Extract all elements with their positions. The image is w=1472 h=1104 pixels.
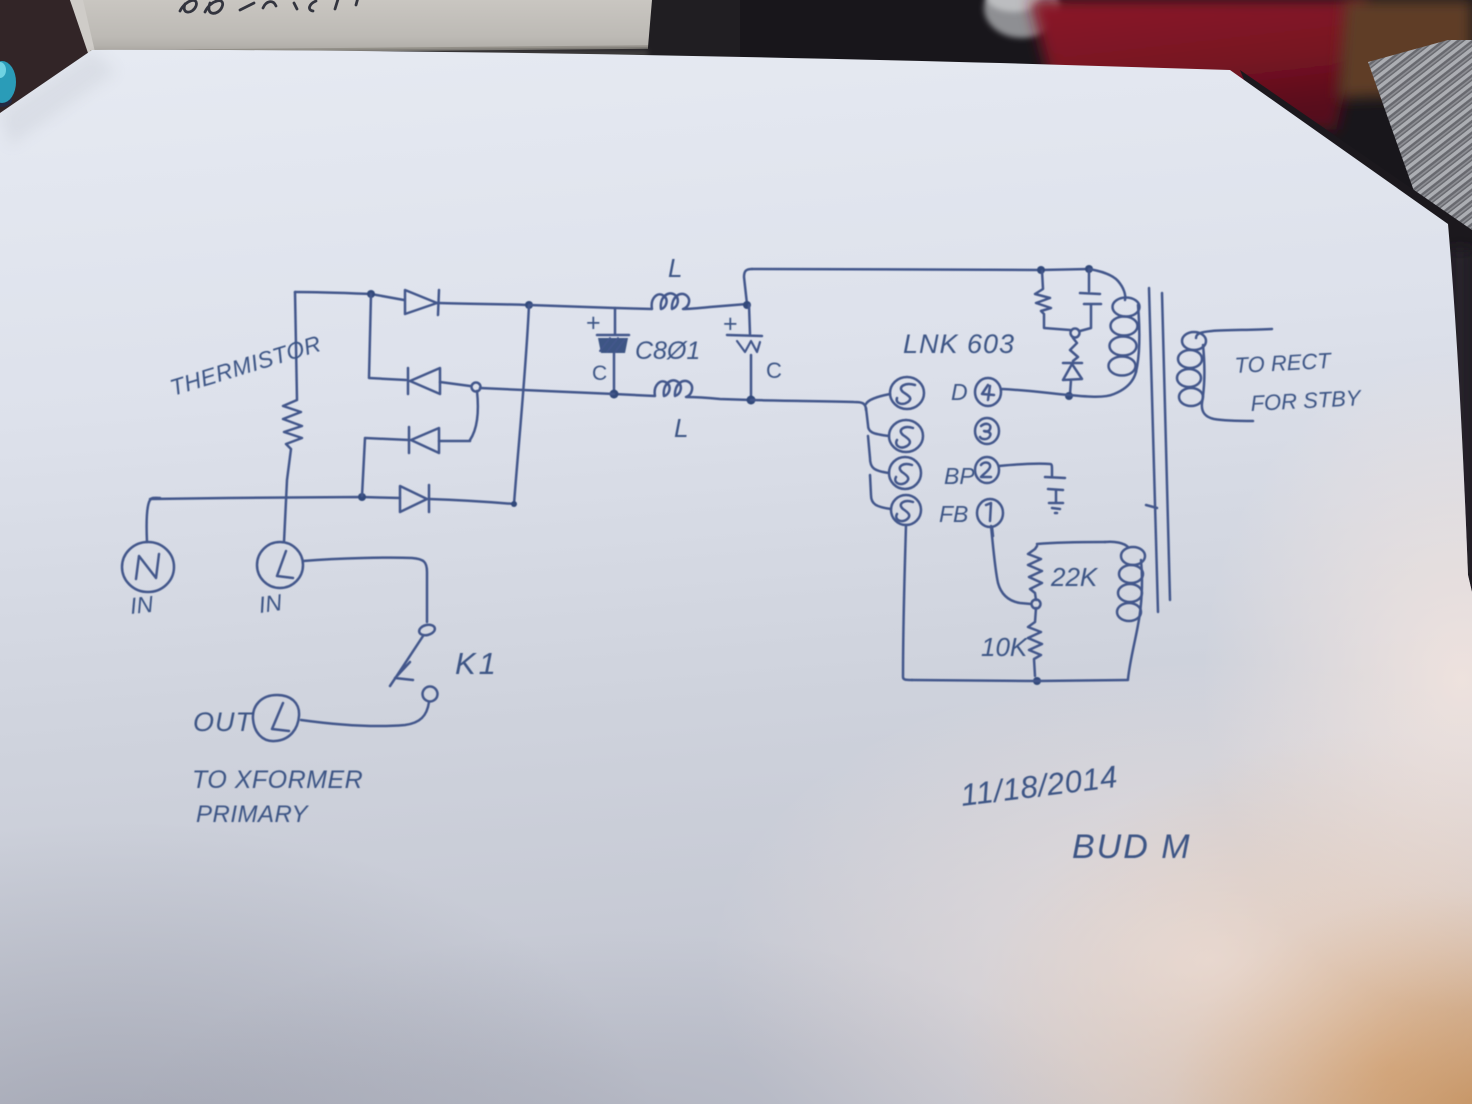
svg-text:BP: BP — [944, 463, 975, 489]
node D dot bridge bottom-right corner — [511, 501, 517, 507]
letter L inside L IN — [277, 551, 293, 578]
node K open circle snubber junction — [1071, 329, 1080, 338]
node G dot C801 left bottom — [610, 390, 619, 399]
core tick mark — [1146, 505, 1157, 508]
resistor 22K — [1028, 546, 1042, 600]
wire long top rail to snubber — [752, 269, 1089, 270]
transformer aux winding — [1105, 542, 1128, 547]
wire EMI lower rail from hook to C801 — [480, 388, 614, 394]
svg-text:C: C — [766, 358, 782, 383]
wire L IN to K1 upper contact — [303, 558, 427, 622]
svg-text:C: C — [592, 362, 607, 385]
letter S pin2 — [896, 427, 913, 447]
svg-text:IN: IN — [257, 589, 284, 618]
dark strip along right paper edge — [1240, 70, 1472, 600]
IC U1 pin BP2 circle — [975, 457, 999, 483]
IC U1 pin FB1 circle — [977, 499, 1003, 527]
IC U1 pin S2 circle — [889, 420, 923, 452]
node I dot snubber R top — [1037, 266, 1045, 274]
svg-text:D: D — [951, 379, 968, 405]
INK LAYER — [122, 265, 1272, 741]
terminal L IN circle — [257, 542, 303, 588]
relay contact K1 upper — [418, 623, 436, 637]
diode D2 — [408, 368, 440, 394]
terminal OUT L circle — [253, 695, 299, 741]
letter S pin3 — [895, 464, 912, 484]
node C junction dot bridge bottom-left — [358, 493, 366, 501]
TEXT LAYER — [129, 253, 1363, 866]
IC U1 pin D4 circle — [975, 378, 1001, 406]
node H dot C801 right bottom — [747, 396, 756, 405]
wire drain pin to clamp node and primary bottom — [1001, 372, 1136, 397]
IC U1 pin S1 circle — [890, 377, 924, 409]
capacitor snubber C — [1080, 270, 1101, 331]
wire D3 leads — [362, 438, 470, 496]
svg-text:TO XFORMER: TO XFORMER — [192, 766, 363, 794]
node L dot clamp anode junction — [1065, 392, 1073, 400]
svg-text:10K: 10K — [981, 632, 1029, 662]
node J dot snubber C top — [1085, 265, 1093, 273]
svg-text:K1: K1 — [455, 646, 499, 681]
wire D4 pin to clamp — [1000, 389, 1003, 392]
wire N riser to bottom rail — [147, 498, 160, 542]
thermistor RT1 — [283, 292, 302, 542]
wire aux winding top to 22K — [1037, 542, 1105, 544]
digit 3 in pin — [980, 424, 990, 439]
wire bridge bottom rail — [150, 497, 400, 499]
wire BP2 to bypass cap — [999, 464, 1052, 476]
svg-text:TO RECT: TO RECT — [1234, 348, 1333, 378]
wire D2 anode branch from top node — [369, 294, 406, 380]
wire D2 to hook node — [440, 382, 470, 386]
diode zener clamp — [1063, 338, 1082, 394]
inductor L top winding — [616, 293, 747, 309]
scrap paper top-left with cursive scribble — [70, 0, 652, 52]
wire D1 cathode to top-right node — [439, 303, 529, 305]
wire D4 to bridge bottom-right corner — [429, 499, 514, 504]
wire bottom return rail — [912, 680, 1128, 681]
digit 2 in pin — [981, 463, 991, 477]
teal object left edge — [0, 93, 12, 107]
diode D3 — [409, 427, 439, 453]
wire top node up to long rail — [744, 269, 752, 304]
wire K1 lower contact to OUT terminal — [301, 702, 429, 726]
svg-text:22K: 22K — [1050, 562, 1099, 592]
svg-text:FB: FB — [939, 501, 968, 527]
node F dot at choke output — [743, 301, 751, 309]
wire FB1 to divider junction — [991, 526, 1031, 604]
inductor L bottom winding — [614, 380, 751, 400]
digit 4 in pin — [982, 385, 994, 400]
digit 1 in pin — [986, 503, 991, 521]
IC U1 pin 3 circle — [975, 418, 999, 444]
resistor 10K — [1028, 608, 1042, 676]
svg-text:+: + — [723, 310, 738, 338]
grey round object top middle — [984, 0, 1060, 38]
capacitor BP bypass — [1045, 477, 1065, 502]
node A junction dot bridge top-left — [367, 290, 375, 298]
relay K1 arm with arrowhead — [390, 636, 423, 686]
letter N inside terminal — [136, 554, 159, 579]
letter S pin4 — [896, 501, 913, 521]
wire EMI top rail from bridge to C801 — [529, 305, 615, 308]
wire hook down to D3 cathode — [470, 391, 478, 440]
wire bridge top rail — [295, 292, 404, 300]
metallic striped object — [1368, 40, 1472, 250]
capacitor C801 left electrolytic — [597, 308, 629, 393]
ground symbol — [1049, 503, 1063, 513]
node N dot divider bottom — [1033, 677, 1041, 685]
diode D1 — [405, 290, 439, 315]
node B junction dot bridge top-right — [525, 301, 533, 309]
svg-text:PRIMARY: PRIMARY — [196, 801, 309, 828]
wire S4 down to bottom rail — [903, 525, 912, 680]
svg-text:L: L — [674, 413, 688, 443]
brown patch right of red — [1338, 0, 1472, 98]
letter L inside OUT — [272, 703, 289, 731]
wire S bus vertical with branches — [866, 394, 890, 404]
svg-text:OUT: OUT — [193, 707, 255, 737]
svg-text:L: L — [668, 253, 682, 283]
terminal N IN circle — [122, 542, 174, 592]
svg-text:BUD M: BUD M — [1072, 828, 1192, 866]
node M open circle divider junction — [1032, 600, 1041, 609]
svg-text:C8Ø1: C8Ø1 — [635, 337, 700, 365]
capacitor C801 right electrolytic — [727, 305, 762, 399]
svg-text:LNK 603: LNK 603 — [903, 329, 1015, 359]
relay contact K1 lower — [423, 687, 438, 702]
brown corner top-left — [0, 0, 95, 120]
transformer primary winding — [1089, 269, 1125, 300]
red cloth top right — [1030, 0, 1368, 130]
IC U1 pin S4 circle — [891, 495, 921, 525]
IC U1 pin S3 circle — [889, 457, 921, 489]
wire bridge right vertical — [514, 305, 529, 504]
letter S pin1 — [897, 384, 915, 404]
wire EMI bottom rail to S bus — [751, 400, 866, 410]
transformer core — [1149, 288, 1170, 612]
resistor snubber R — [1035, 271, 1070, 330]
svg-text:IN: IN — [129, 591, 155, 619]
node E open hook junction — [472, 383, 481, 392]
svg-text:+: + — [586, 309, 601, 337]
diode D4 — [400, 485, 429, 512]
transformer secondary winding — [1196, 329, 1272, 338]
wire FB1 tail — [992, 527, 993, 536]
